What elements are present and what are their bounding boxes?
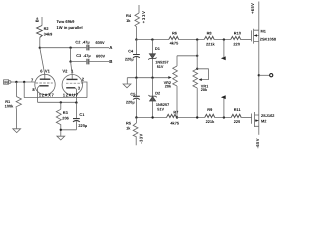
wire V2 plate lead (71, 62, 73, 80)
node dot VR2 bottom (176, 116, 178, 118)
node dot R1 tap (15, 81, 17, 83)
resistor R7 (167, 114, 177, 117)
svg-text:A: A (109, 45, 113, 50)
node dot R3 bottom (60, 129, 62, 131)
node dot VR1 column top (196, 38, 198, 40)
wire R5 column (135, 118, 137, 124)
node +65V label (250, 3, 255, 14)
wire V2 plate branch (70, 48, 72, 62)
svg-text:C3: C3 (76, 53, 82, 58)
capacitor C3 (87, 59, 89, 65)
svg-text:12AU7: 12AU7 (63, 92, 79, 97)
resistor R3 (56, 102, 61, 129)
resistor R8 (204, 36, 214, 39)
resistor R4 (135, 13, 140, 27)
svg-text:7: 7 (31, 77, 34, 82)
terminal output (270, 74, 273, 77)
svg-text:B: B (109, 59, 112, 64)
node dot VR1 feed (196, 55, 198, 57)
svg-text:1W in parallel: 1W in parallel (57, 25, 83, 30)
resistor R1 (16, 82, 21, 129)
svg-text:-33V: -33V (139, 133, 144, 143)
capacitor C4 (135, 40, 137, 78)
svg-text:C1: C1 (79, 112, 85, 117)
svg-text:20k: 20k (201, 88, 208, 92)
resistor R2 (37, 26, 43, 38)
wire M2 source to -65V (258, 126, 260, 135)
svg-text:D2: D2 (155, 90, 161, 95)
svg-text:221k: 221k (206, 119, 215, 124)
node dot D1 top (151, 38, 153, 40)
svg-text:R11: R11 (234, 107, 242, 112)
svg-text:R7: R7 (173, 109, 178, 114)
svg-text:1k: 1k (126, 18, 131, 23)
ground cathode network (57, 136, 65, 140)
node dot grid loop tap (23, 81, 25, 83)
svg-text:R3: R3 (63, 110, 69, 115)
svg-text:R10: R10 (234, 30, 241, 35)
node dot VR1 bottom (196, 116, 198, 118)
node dot row B (69, 60, 71, 62)
svg-text:6: 6 (40, 68, 43, 73)
wire output stub (259, 74, 270, 76)
wire bottom rail seg1 (136, 117, 166, 119)
svg-text:IN: IN (4, 80, 8, 84)
node dot C4/C5 (135, 77, 137, 79)
V2 grid dashes (66, 82, 83, 84)
wire gate M1 (241, 39, 252, 41)
svg-text:100k: 100k (5, 103, 14, 108)
wire +65V rail (258, 2, 260, 31)
V2 cathode (66, 87, 75, 89)
wire VR1 column (196, 40, 198, 69)
svg-text:C2: C2 (75, 40, 81, 45)
wire M1 source to output (258, 41, 260, 115)
node dot C1 top (75, 101, 77, 103)
svg-text:2: 2 (82, 76, 85, 81)
svg-text:1: 1 (71, 68, 74, 73)
wire row B (71, 61, 109, 63)
wire R3/C1 bottom (61, 130, 77, 136)
svg-text:.47µ: .47µ (82, 40, 90, 45)
wire net B drop (223, 40, 225, 57)
svg-text:600V: 600V (96, 40, 105, 45)
wire mid rail (127, 77, 168, 79)
V2 plate bar (67, 78, 78, 80)
svg-text:+65V: +65V (250, 3, 255, 14)
resistor R6 (169, 36, 179, 39)
svg-text:221k: 221k (206, 42, 215, 47)
svg-text:600V: 600V (96, 53, 105, 58)
node dot D1/D2 (151, 77, 153, 79)
resistor R10 (231, 36, 241, 39)
node B arrow (109, 59, 112, 64)
node net A arrow (221, 95, 226, 99)
resistor R5 (133, 123, 138, 145)
V1 plate bar (40, 78, 51, 80)
svg-text:51V: 51V (157, 107, 164, 111)
svg-text:34k9: 34k9 (44, 31, 53, 36)
triode V2 (62, 75, 82, 95)
wire gate M2 (241, 117, 251, 119)
node A arrow (109, 45, 113, 50)
svg-text:R8: R8 (207, 30, 213, 35)
node VR1 wiper arrow (199, 78, 202, 81)
transistor M1 (251, 29, 258, 44)
node dot R4/C4 (135, 38, 137, 40)
note Two 69k9 1W in parallel (57, 19, 83, 30)
svg-text:D1: D1 (155, 46, 161, 51)
node -65V label (255, 138, 260, 148)
svg-text:2SJ162: 2SJ162 (261, 113, 275, 118)
node dot R2/C2 (39, 47, 41, 49)
svg-text:220: 220 (233, 42, 240, 47)
svg-text:220µ: 220µ (126, 99, 135, 104)
wire B+ to R2 (41, 17, 43, 26)
svg-text:Two 69k9: Two 69k9 (57, 19, 76, 24)
potentiometer VR1 wiper loop (197, 69, 208, 80)
svg-text:R9: R9 (207, 107, 213, 112)
svg-text:.47µ: .47µ (83, 53, 91, 58)
node VR2 wiper arrow (168, 76, 171, 79)
capacitor C1 (75, 103, 77, 130)
wire R2 to node A (39, 37, 41, 47)
diode D1 zener (151, 40, 153, 78)
wire cathode bus (38, 101, 77, 103)
wire V1 plate lead (40, 48, 45, 79)
svg-text:+33V: +33V (141, 10, 146, 23)
triode V1 (35, 74, 55, 94)
node net B arrow (221, 56, 226, 60)
wire top rail seg3 (214, 39, 231, 41)
potentiometer VR2 (173, 56, 178, 118)
ground mid rail (123, 84, 131, 88)
wire net A rise (223, 99, 225, 118)
svg-text:V1: V1 (45, 68, 51, 73)
terminal IN (4, 80, 9, 84)
wire bottom rail seg2 (177, 117, 205, 119)
ground input (13, 129, 21, 133)
wire V2 grid stub (81, 82, 87, 98)
node dot V2 plate branch (69, 47, 71, 49)
svg-text:R6: R6 (172, 30, 178, 35)
potentiometer VR1 (193, 69, 198, 118)
node dot output (258, 74, 260, 76)
svg-text:M2: M2 (261, 119, 267, 124)
svg-text:R5: R5 (126, 120, 132, 125)
node +33V label (141, 10, 146, 23)
resistor R9 (205, 114, 215, 117)
node -33V label (139, 133, 144, 143)
wire top rail seg1 (136, 39, 168, 41)
node dot C5/R5 (135, 116, 137, 118)
svg-text:3: 3 (78, 85, 81, 90)
svg-text:206: 206 (62, 116, 69, 121)
capacitor C5 (135, 78, 137, 118)
transistor M2 (252, 112, 259, 127)
wire grid loop line (24, 82, 87, 98)
V1 grid dashes (36, 82, 53, 84)
svg-text:V2: V2 (62, 68, 68, 73)
wire R4 to top rail (136, 27, 138, 40)
svg-text:4k75: 4k75 (170, 41, 179, 46)
capacitor C2 (87, 45, 89, 51)
wire input (11, 81, 35, 83)
node dot net B tap (223, 38, 225, 40)
node dot D2 bottom (151, 116, 153, 118)
resistor R11 (231, 114, 241, 117)
svg-text:1k: 1k (126, 126, 131, 131)
svg-text:51V: 51V (157, 65, 164, 69)
wire bottom rail seg3 (215, 117, 232, 119)
wire ground stub mid (126, 78, 128, 84)
wire row A (40, 47, 109, 49)
wire +33V feed (138, 5, 140, 13)
node B+ label (35, 16, 40, 22)
svg-text:220µ: 220µ (78, 123, 87, 128)
svg-text:220µ: 220µ (125, 57, 134, 62)
diode D2 zener (152, 78, 154, 118)
svg-text:20k: 20k (165, 85, 172, 89)
svg-text:2SK1058: 2SK1058 (260, 36, 277, 41)
node dot R3 top (60, 101, 62, 103)
svg-text:-65V: -65V (255, 138, 260, 148)
wire top rail seg2 (179, 39, 204, 41)
svg-text:C4: C4 (128, 48, 134, 53)
svg-text:4k75: 4k75 (170, 120, 179, 125)
svg-text:B+: B+ (35, 16, 40, 22)
svg-text:C5: C5 (130, 91, 136, 96)
svg-text:M1: M1 (261, 28, 267, 33)
svg-text:12AX7: 12AX7 (39, 92, 55, 97)
V1 cathode (39, 85, 48, 87)
node dot net A tap (223, 116, 225, 118)
wire VR2 feed (177, 55, 197, 57)
svg-text:220: 220 (234, 119, 241, 124)
node dot VR1 loop top (196, 68, 198, 70)
